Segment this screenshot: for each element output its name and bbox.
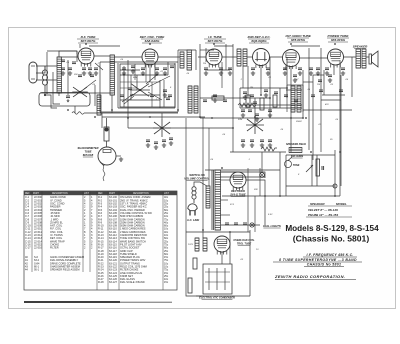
ground mid 7 [293,78,297,82]
shield box osc section [120,64,175,107]
wire output box bottom y186 [286,185,335,187]
ground volume network 3 [260,143,264,147]
tube V2 det-osc 6A8 [142,49,158,68]
wire volume top [254,98,256,117]
trimmer capacitor 2 [131,66,135,68]
wire grid bus y51 [47,50,77,52]
wire osc h70 [120,69,140,71]
svg-text:SWITCH ON: SWITCH ON [189,173,204,177]
wire ps v248 [247,168,249,232]
capacitor extra 15 [319,90,323,92]
ground under tube area 18 [325,71,329,75]
wire osc anode [167,62,169,75]
wire rotary to bus [161,113,163,119]
capacitor under tube area 6 [141,68,145,70]
wire loop coil down [45,95,57,108]
wire audio plate coupling [300,57,328,59]
I.F. transformer T1 secondary [243,49,247,66]
wire shadowmeter cathode squiggle [103,165,105,181]
resistor det network 3 [273,95,277,107]
capacitor extra 2 [72,62,76,64]
svg-text:DIAL LIGHTS: DIAL LIGHTS [263,224,281,228]
trimmer capacitor 11 [293,75,297,77]
capacitor det network 2 [255,114,259,116]
label shadowmeter line1 [78,146,99,150]
band switch S1 wafer B [130,84,150,97]
resistor det network 2 [260,98,264,110]
svg-text:1075: 1075 [188,244,194,246]
svg-text:690 OHMS: 690 OHMS [291,155,304,158]
I.F. transformer T2 secondary [297,86,301,112]
svg-text:REF: REF [98,193,103,195]
subtitle superheterodyne [273,258,362,262]
capacitor det network 1 [241,110,245,112]
wire avc bus y93 [40,92,113,94]
wire osc coil feed [177,50,179,62]
capacitor C21 [203,100,207,102]
wire power h100 [321,99,341,101]
wire transformer tap 1 [221,179,231,181]
svg-text:A.C. LINE: A.C. LINE [186,218,199,222]
svg-text:R-28: R-28 [98,280,104,284]
ground under tube area 1 [61,71,65,75]
ground mid 3 [163,93,167,97]
capacitor volume network 4 [268,140,272,142]
speaker cone [369,51,378,67]
label tone control [293,164,300,167]
capacitor under tube area 17 [316,68,320,70]
label switch on volume control 2 [184,177,210,181]
svg-text:(Chassis No. 5801): (Chassis No. 5801) [293,234,370,244]
svg-text:SPEAKER: SPEAKER [310,202,325,206]
wire audio h82 [303,81,313,83]
shadowmeter tube [98,147,121,166]
svg-text:50M: 50M [238,119,242,121]
label 2nd det-AVC tube [247,35,271,43]
wire osc coil top [195,50,197,70]
svg-text:Models 8-S-129, 8-S-154: Models 8-S-129, 8-S-154 [285,224,379,233]
speaker model table header [308,202,352,206]
wire antenna top lead [36,65,57,67]
svg-text:I.F. FREQUENCY 456 K.C.: I.F. FREQUENCY 456 K.C. [307,253,354,257]
power transformer secondary [215,170,221,230]
R.F. grid coil L3 [110,55,115,95]
wire L2 bottom drop [58,93,60,96]
wire osc inner left [117,63,119,108]
wire power left rail [186,230,203,296]
candohm resistor section B [203,238,207,251]
trimmer capacitor 12 [318,80,322,82]
power transformer primary [206,186,210,208]
ground under tube area 5 [94,71,98,75]
ground under tube area 12 [251,71,255,75]
wire osc outer bottom y112 [100,111,178,113]
label electrolytic condenser [199,297,235,300]
line cord loops [192,187,196,203]
wire rectifier filament rail [229,232,231,264]
wire osc grid drop [136,75,138,90]
ground under tube area 15 [298,71,302,75]
capacitor extra 14 [311,95,315,97]
capacitor extra 12 [284,95,288,97]
svg-text:6Q6-6Q6G: 6Q6-6Q6G [251,39,267,43]
wire plug to switch [194,182,207,186]
A.C. line plug [188,204,197,216]
label overload control 1 [233,239,254,242]
ground rotary cluster 2 [154,145,158,149]
ground mid 1 [122,71,126,75]
antenna secondary coil L2 [57,57,62,93]
wire rectifier output [246,180,265,225]
wire power grid y95 [322,94,345,96]
wire audio plate drop [290,67,292,152]
wire audio cathode drop [302,70,304,118]
wire if centre drop [232,44,234,152]
wire osc block left [99,62,101,112]
wire dial lamp drop [261,152,263,173]
wire bias drop [320,48,322,152]
wire osc diag a [146,74,158,84]
table bottom heavy rule [24,301,120,303]
R.F. padder coil L3b [97,95,101,115]
dial lamp capacitor 3 [243,223,247,225]
wire osc interior v152 [151,82,153,107]
svg-text:6A8-6A8G: 6A8-6A8G [145,39,160,43]
svg-text:VOLUME CONTROL: VOLUME CONTROL [184,177,210,181]
wire antenna bottom lead [36,79,57,81]
svg-text:LIST: LIST [164,193,169,195]
capacitor extra 11 [248,110,252,112]
wire osc v155 [154,64,156,80]
capacitor under tube area 13 [266,68,270,70]
svg-text:50M: 50M [133,77,137,79]
wire det v243 [242,66,244,88]
flexible resistance wire squiggle [72,112,84,115]
capacitor under tube area 15 [298,68,302,70]
svg-text:ZENITH RADIO CORPORATION.: ZENITH RADIO CORPORATION. [274,274,345,279]
parts table right column rows [98,195,169,284]
ground det network 1 [241,113,245,117]
parts list table frame [24,191,177,290]
wire if v226 [225,44,227,70]
wire ps v260 [259,168,261,196]
capacitor extra 13 [294,100,298,102]
label A.C. line [186,218,199,222]
wire bias y75 [313,74,324,76]
ground under tube area 8 [163,71,167,75]
wire ift2 left [239,88,241,108]
wire osc internal v146 [145,64,147,82]
component value annotations [66,59,349,261]
parts table column rules [32,191,163,290]
wire power plate to output [344,56,357,58]
ground under tube area 2 [68,71,72,75]
wire output box right [334,150,336,196]
svg-text:6F5-6F5G: 6F5-6F5G [291,38,306,42]
wire osc cathode drop [149,66,151,82]
svg-text:LIST: LIST [84,193,89,195]
wire ift2 bottom y108 [240,107,302,109]
trimmer capacitor 3 [163,90,167,92]
ground shadowmeter [119,157,123,161]
wire ift2 top stub [287,84,303,86]
svg-text:15c: 15c [164,280,169,284]
resistor det network 1 [246,95,250,107]
parts table left column group 2 rows [25,255,84,272]
wire T1 to det grid [247,56,253,58]
wire rf box drop [74,106,76,113]
wire power cathode drop [333,66,335,75]
wire shadowmeter feed [106,118,108,127]
wire osc v164 [163,80,165,107]
wire B plus main drop [339,60,341,196]
wire avc line y152 [230,151,286,153]
ground mid 6 [264,93,268,97]
ground under tube area 17 [316,71,320,75]
trimmer capacitor 5 [213,95,217,97]
wire diag osc [148,92,162,100]
wire det bus y98 [200,97,270,99]
wire osc coil h50 [178,49,196,51]
capacitor under tube area 1 [61,68,65,70]
wire filament winding [221,224,260,226]
label speaker [353,45,368,49]
wire osc inner right [174,63,176,108]
trimmer capacitor 1 [122,68,126,70]
wire ift2 right side [302,85,304,112]
svg-text:MODEL: MODEL [336,202,347,206]
ground under tube area 16 [309,71,313,75]
trimmer capacitor 9 [264,90,268,92]
gang condenser box R.F. section [39,93,90,107]
capacitor rotary cluster 2 [154,142,158,144]
wire det plate to T1 [158,56,180,58]
ground volume network 4 [268,143,272,147]
svg-text:SPEAKER FIELD: SPEAKER FIELD [286,143,306,146]
resistor R12 zigzag [261,147,277,151]
label overload control 2 [237,243,252,246]
resistor R8 diode load [212,96,224,100]
svg-text:REF: REF [25,193,30,195]
tube V6 power 6F6 [328,49,344,68]
wire osc interior v135 [134,64,136,80]
wire osc internal h82 [120,81,160,83]
parts table header band [24,191,177,195]
electrolytic internals [205,268,230,290]
subtitle IF frequency [303,253,357,257]
wire ps h232 [186,231,250,233]
svg-text:TONE: TONE [293,164,300,167]
antenna primary loop coil L1 [42,66,47,95]
wire heater run down left [202,170,204,238]
svg-text:5Y4-G TUBE: 5Y4-G TUBE [230,193,246,197]
wire heater rail drop [308,48,310,150]
capacitor under tube area 12 [251,68,255,70]
output wiper arrow [306,165,313,172]
svg-text:DIAL SCALE 3 BAND: DIAL SCALE 3 BAND [120,280,145,284]
speaker model row 2 [306,213,352,217]
svg-text:SPEAKER: SPEAKER [353,45,368,49]
wire switch drop [159,80,161,108]
wire L3 to det grid [115,56,143,58]
speaker field choke [289,148,302,153]
svg-text:6K7-6K7G: 6K7-6K7G [208,39,223,43]
wire IF grid from left [198,56,206,58]
overload control tube [214,236,230,255]
trimmer capacitor 6 [223,100,227,102]
wire osc top y62 [100,61,178,63]
wire rf screen drop [94,85,96,106]
capacitor rotary cluster 3 [162,140,166,142]
wire osc box bottom y108 [118,107,175,109]
svg-text:250M: 250M [295,121,302,123]
osc padder coil L6a [188,86,192,113]
wire transformer tap 2 [221,199,229,201]
svg-text:22-516: 22-516 [34,246,43,250]
ground under tube area 14 [283,71,287,75]
wire ant to grid y57 [59,56,78,58]
wire det out coupling [270,56,284,58]
I.F. transformer T2 primary [291,86,295,112]
antenna coil junction dot [44,94,46,96]
label switch on volume control 1 [189,173,204,177]
svg-text:VELVET 8″ — 8S-129: VELVET 8″ — 8S-129 [308,208,338,212]
speaker model row 1 [308,208,338,212]
capacitor extra 4 [90,75,94,77]
wire det cathode [260,66,262,95]
wire volume line down x186 [185,118,187,230]
capacitor extra 9 [170,66,174,68]
wire if h50 [200,49,214,51]
wire power bottom rail [196,295,250,297]
svg-text:RECTIFIER: RECTIFIER [231,189,245,193]
wire output box left [285,155,287,196]
osc plate coil L4 [180,52,184,68]
wire osc h95 [130,94,160,96]
capacitor rotary cluster 1 [146,140,150,142]
trimmer arrow [67,99,69,102]
svg-text:6K7-6K7G: 6K7-6K7G [81,39,96,43]
bleeder resistor [188,278,192,293]
wire if v222 [221,62,223,88]
svg-text:TROL TUBE: TROL TUBE [237,243,252,246]
wire det v270b [269,100,271,118]
wire L2 top to R.F. grid [59,51,77,57]
capacitor extra 7 [150,95,154,97]
svg-text:PM-MB 12″ — 8S-154: PM-MB 12″ — 8S-154 [308,213,338,217]
label speaker field 1 [286,143,306,146]
capacitor extra 1 [61,60,65,62]
svg-text:SHADOWMETER: SHADOWMETER [78,146,99,150]
wire osc box drop x102 [101,113,103,128]
wire osc interior h88 [120,87,137,89]
antenna terminal strip [29,62,37,83]
rectifier tube 5Y4G [230,172,246,191]
tube V5 1st audio 6F5 [283,50,300,70]
wire osc v131 [130,75,132,100]
transformer core lines [211,170,213,230]
wire osc low y100 [120,99,160,101]
label rectifier 1 [231,189,245,193]
osc grid coil L5 [187,50,192,70]
capacitor extra 3 [78,75,82,77]
ground mid 8 [328,78,332,82]
wire x53 drop [53,72,60,104]
volume control potentiometer [246,116,264,134]
wire overload tube to electrolytic [221,252,223,264]
wire speaker return drop [351,57,353,97]
ground mid 4 [213,98,217,102]
svg-text:2M: 2M [249,87,253,89]
capacitor extra 6 [128,88,132,90]
wire ps v255 [254,196,256,232]
wire antenna mid lead [36,66,45,73]
wire IF plate to T1 [222,56,237,58]
wire R.F. plate to L3 [94,55,110,57]
parts table left column rows [25,195,93,249]
wire output box inner b [316,155,318,186]
label R.F. tube [77,35,99,43]
ground mid 5 [243,95,247,99]
capacitor output [322,166,324,170]
capacitor under tube area 5 [94,68,98,70]
wire if v206 [205,48,207,62]
ground under tube area 9 [204,71,208,75]
capacitor under tube area 11 [228,68,232,70]
band switch S1 wafer A [72,87,87,97]
osc padder coil L6b [194,86,198,113]
ground det network 3 [268,113,272,117]
label 1st audio tube [285,34,312,42]
wire transformer tap 3 [221,214,231,216]
label shadowmeter line2 [84,150,91,154]
wire rail x209 to transformer [208,128,210,186]
wire audio bias y90 [286,89,302,91]
wire output box inner a [311,155,313,186]
trimmer capacitor 13 [328,75,332,77]
tube V4 2nd det AVC 6Q6 [253,49,270,69]
svg-text:DESCRIPTION: DESCRIPTION [52,193,68,195]
tone control switch [285,157,293,168]
svg-text:1M: 1M [317,84,320,86]
tube V1 R.F. 6K7 [78,48,94,67]
capacitor extra 10 [253,102,257,104]
capacitor under tube area 7 [155,68,159,70]
capacitor under tube area 16 [309,68,313,70]
svg-text:8 TUBE SUPERHETERODYNE —3 BAND: 8 TUBE SUPERHETERODYNE —3 BAND [279,258,357,262]
wire ant coil gnd [46,52,48,93]
voltage divider resistor [316,159,320,176]
ground rotary cluster 3 [162,143,166,147]
capacitor under tube area 3 [82,68,86,70]
capacitor extra 5 [120,95,124,97]
candohm resistor section A [195,238,199,251]
ground volume network 1 [241,143,245,147]
capacitor under tube area 19 [341,68,345,70]
ground under tube area 11 [228,71,232,75]
svg-text:63-127: 63-127 [109,280,118,284]
wire b plus bus y170 [205,169,280,171]
dial lamp capacitor 2 [234,223,238,225]
svg-text:95-1: 95-1 [34,268,40,272]
wire if h70 [205,69,230,71]
label det-osc tube [140,35,165,43]
wire top supply y44a [89,45,120,47]
wire long bus y128 [128,127,233,129]
ground under tube area 7 [155,71,159,75]
capacitor under tube area 14 [283,68,287,70]
svg-text:6.3V: 6.3V [268,214,273,216]
